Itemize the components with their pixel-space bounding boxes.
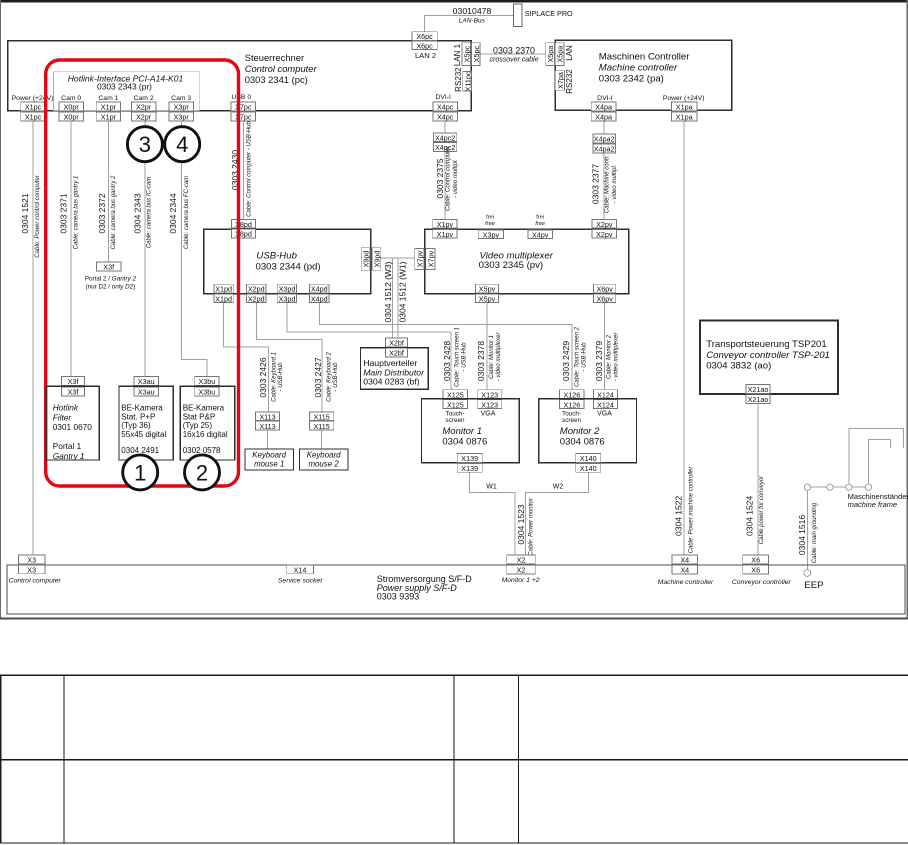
connector X6pc pair (412, 32, 437, 51)
svg-text:X5pv: X5pv (479, 285, 496, 294)
svg-text:Machine controller: Machine controller (599, 62, 678, 73)
svg-text:X6pv: X6pv (597, 295, 614, 304)
wire: cable 0304 2344 X3pr to X3bu (181, 121, 207, 377)
svg-text:X2: X2 (517, 566, 526, 575)
svg-text:X139: X139 (461, 464, 478, 473)
svg-text:X5pc: X5pc (462, 46, 471, 63)
svg-text:Keyboard: Keyboard (252, 451, 286, 460)
svg-text:55x45 digital: 55x45 digital (121, 430, 166, 439)
svg-text:Monitor 1 +2: Monitor 1 +2 (502, 577, 540, 584)
svg-text:X0pr: X0pr (64, 113, 80, 122)
svg-text:X115: X115 (313, 422, 329, 431)
cable label 0303 2427 (313, 351, 339, 401)
wire: crossover cable X5pc to X5pa (480, 53, 546, 55)
svg-text:X3f: X3f (68, 388, 79, 397)
cable label 0304 1516 (797, 502, 818, 563)
cable label 0304 1524 (744, 475, 765, 544)
connector X4pa pair (591, 102, 616, 122)
svg-text:frei: frei (536, 215, 544, 221)
svg-text:03010478: 03010478 (453, 6, 492, 16)
svg-text:W2: W2 (553, 483, 564, 490)
callout circle 2 (185, 455, 220, 490)
wire: cable 0303 2378 X5pv to X123 (486, 303, 488, 390)
svg-text:X3: X3 (27, 566, 36, 575)
svg-text:X126: X126 (564, 390, 581, 399)
connector X139 pair (457, 454, 482, 473)
svg-text:VGA: VGA (481, 411, 496, 418)
svg-text:frei: frei (486, 215, 494, 221)
callout circle 1 (123, 455, 158, 490)
svg-text:X11pc: X11pc (463, 71, 472, 91)
svg-text:mouse 2: mouse 2 (308, 460, 339, 469)
video multiplexer box 0303 2345 (pv) (425, 229, 629, 294)
power supply box S/F-D 0303 9393 (7, 565, 905, 614)
svg-text:Cam 2: Cam 2 (134, 95, 154, 102)
svg-text:X6: X6 (751, 566, 760, 575)
connector X115 pair (310, 412, 334, 431)
svg-text:Portal 2 / Gantry 2: Portal 2 / Gantry 2 (85, 275, 137, 282)
node: EEP grounding circle (804, 570, 811, 577)
svg-text:Cable: camera bus gantry 2: Cable: camera bus gantry 2 (111, 175, 117, 249)
svg-text:X3pd: X3pd (279, 285, 296, 294)
svg-text:Maschinen Controller: Maschinen Controller (599, 51, 690, 62)
svg-text:X1pr: X1pr (101, 113, 117, 122)
connector X140 pair (576, 454, 601, 473)
svg-text:X7pv: X7pv (416, 250, 425, 267)
hotlink filter box 0301 0670 (46, 386, 99, 460)
svg-text:X14: X14 (294, 566, 307, 575)
svg-text:X4pc: X4pc (437, 113, 454, 122)
svg-text:X3au: X3au (138, 388, 155, 397)
connector X5pv pair (475, 284, 498, 303)
svg-text:RS232: RS232 (454, 67, 463, 92)
cable label 0303 2430 (230, 120, 253, 216)
svg-text:Service socket: Service socket (278, 578, 323, 585)
svg-text:0304 1523: 0304 1523 (516, 504, 526, 544)
USB-Hub box 0303 2344 (pd) (204, 229, 371, 294)
svg-text:X1pd: X1pd (215, 295, 232, 304)
svg-text:X2pr: X2pr (136, 103, 152, 112)
svg-text:X21ao: X21ao (748, 395, 769, 404)
svg-text:0303 9393: 0303 9393 (377, 592, 420, 602)
connector X4pv (528, 230, 553, 239)
wire: cable 0303 2377 X4pa2 to X2pv (603, 153, 605, 219)
svg-text:2: 2 (196, 460, 208, 485)
keyboard mouse 2 box (299, 449, 348, 470)
connector X3f portal 2 (97, 262, 122, 272)
svg-text:Conveyor controller TSP-201: Conveyor controller TSP-201 (706, 350, 830, 361)
svg-text:Cable: Touch screen 2: Cable: Touch screen 2 (575, 326, 581, 386)
sheet frame right border (906, 0, 907, 619)
svg-text:- USB-Hub: - USB-Hub (333, 362, 339, 392)
svg-text:Portal 1: Portal 1 (53, 441, 82, 451)
svg-text:EEP: EEP (804, 580, 823, 591)
wire: cable 0303 2427 X2pd to X115 (256, 303, 322, 412)
svg-text:0303 2372: 0303 2372 (97, 193, 107, 233)
svg-text:0303 2344 (pd): 0303 2344 (pd) (256, 261, 321, 272)
svg-text:Cable: Monitor 2: Cable: Monitor 2 (607, 334, 613, 379)
svg-text:X4pv: X4pv (532, 230, 549, 239)
connector X113 pair (255, 412, 279, 431)
svg-text:X1pc: X1pc (25, 103, 42, 112)
svg-text:LAN 1: LAN 1 (453, 43, 462, 66)
svg-text:Control computer: Control computer (9, 578, 62, 585)
svg-text:X4pc2: X4pc2 (435, 133, 455, 142)
connector X6 pair (743, 555, 769, 575)
connector X3f pair (62, 377, 85, 397)
svg-text:0303 2345 (pv): 0303 2345 (pv) (479, 260, 544, 271)
wire: machine frame outer hook (849, 429, 904, 488)
svg-text:X1pd: X1pd (215, 285, 232, 294)
connector X21ao pair (746, 384, 770, 404)
svg-text:Transportsteuerung TSP201: Transportsteuerung TSP201 (706, 339, 827, 350)
svg-text:X113: X113 (259, 422, 275, 431)
connector X6pv pair (594, 284, 616, 303)
connector X9pd pair rotated (361, 248, 381, 271)
svg-text:Cable: Control computer: Cable: Control computer (446, 145, 452, 211)
svg-text:X140: X140 (580, 454, 597, 463)
svg-text:0304 1524: 0304 1524 (744, 496, 754, 536)
svg-text:0304 0876: 0304 0876 (442, 436, 487, 447)
svg-text:X5pa: X5pa (546, 46, 555, 63)
node: grounding circle 3 (846, 484, 852, 490)
wire: X115 to keyboard mouse 2 (321, 430, 323, 449)
svg-text:X3au: X3au (138, 377, 155, 386)
svg-text:X5pv: X5pv (479, 295, 496, 304)
wire: W2 monitor2 X140 to X2 (526, 472, 589, 555)
svg-text:Steuerrechner: Steuerrechner (245, 52, 304, 63)
svg-text:Cable: camera bus IC-cam: Cable: camera bus IC-cam (147, 177, 153, 248)
connector X1pa pair (672, 102, 698, 122)
svg-text:X113: X113 (259, 412, 275, 421)
svg-text:X9pd: X9pd (362, 251, 371, 268)
connector X123 pair (478, 390, 502, 410)
label frei free 2 (535, 215, 545, 228)
svg-text:X3pd: X3pd (279, 295, 296, 304)
wire: cable 0304 1516 main grounding to EEP (806, 491, 808, 570)
svg-text:3: 3 (139, 132, 151, 157)
cable label 0303 2426 (258, 352, 284, 402)
connector X124 pair (594, 390, 618, 410)
node: grounding circle 2 (827, 484, 833, 490)
svg-text:Cable: camera bus FC-cam: Cable: camera bus FC-cam (184, 176, 190, 249)
connector X1pr pair (96, 102, 121, 122)
svg-text:X3f: X3f (103, 263, 114, 272)
svg-text:X5pc: X5pc (472, 46, 481, 63)
connector X5pa pair rotated (546, 43, 565, 66)
svg-text:0303 2429: 0303 2429 (561, 341, 571, 381)
svg-text:X1pv: X1pv (437, 220, 454, 229)
BE-Kamera Typ 36 box 0304 2491 (119, 386, 173, 460)
conveyor controller TSP-201 box 0304 3832 (ao) (700, 320, 838, 394)
svg-text:0304 2344: 0304 2344 (168, 193, 178, 233)
svg-text:0303 2342 (pa): 0303 2342 (pa) (599, 73, 664, 84)
wire: cable 0304 1512 (W3) drop to X2bf (391, 258, 393, 338)
wire: X4pa to X4pa2 (603, 121, 605, 134)
cable label 0303 2372 (97, 175, 117, 249)
svg-text:X4pa: X4pa (595, 113, 612, 122)
connector X7pc pair (231, 102, 256, 122)
cable label 0303 2428 (442, 327, 468, 387)
cable label 0303 2429 (561, 326, 587, 386)
svg-text:0303 2378: 0303 2378 (476, 341, 486, 381)
connector X3pv (478, 230, 503, 239)
callout circle 4 (165, 127, 200, 162)
svg-text:X125: X125 (447, 400, 464, 409)
svg-text:X0pr: X0pr (64, 103, 80, 112)
hotlink interface PCI-A14-K01 inner box (53, 72, 199, 111)
svg-text:X3f: X3f (68, 377, 79, 386)
svg-text:X6: X6 (751, 556, 760, 565)
wire: cable 0303 2372 X1pr to X3f portal2 (107, 121, 109, 262)
connector X4pa2 pair (593, 134, 616, 153)
svg-text:- video multiplexer: - video multiplexer (496, 332, 502, 382)
svg-text:0304 1521: 0304 1521 (20, 193, 30, 233)
connector X4 pair (672, 555, 698, 575)
wire: cable 0303 2430 X7pc to X8pd (242, 121, 244, 219)
svg-text:VGA: VGA (597, 411, 612, 418)
svg-text:X4pa: X4pa (595, 103, 612, 112)
svg-text:SIPLACE PRO: SIPLACE PRO (525, 9, 573, 18)
svg-text:X123: X123 (481, 400, 498, 409)
svg-text:- video multiplexer: - video multiplexer (613, 332, 619, 382)
connector X1pc pair (21, 102, 46, 122)
label 03010478 LAN-Bus (453, 6, 492, 24)
connector X3 pair (19, 555, 45, 574)
svg-text:X125: X125 (447, 390, 464, 399)
svg-text:X3pv: X3pv (483, 230, 500, 239)
sheet frame top border (0, 0, 908, 2)
svg-text:0304 1516: 0304 1516 (797, 515, 807, 555)
svg-text:- video multipl.: - video multipl. (612, 165, 618, 204)
wire: X4pc to X4pc2 (444, 121, 446, 133)
svg-text:X2pv: X2pv (596, 220, 613, 229)
red highlight frame around camera interface (46, 60, 239, 486)
svg-text:Cable: Monitor 1: Cable: Monitor 1 (489, 335, 495, 379)
node: grounding circle EEP top (804, 484, 810, 490)
svg-text:0304 1522: 0304 1522 (673, 496, 683, 536)
svg-text:1: 1 (134, 460, 146, 485)
connector X4pc2 pair (434, 133, 457, 152)
cable label 0303 2379 (594, 332, 619, 382)
connector X7pv pair rotated (415, 248, 436, 269)
keyboard mouse 1 box (245, 449, 294, 470)
label Maschinenstaender machine frame (848, 492, 908, 509)
svg-text:0301 0670: 0301 0670 (53, 422, 93, 432)
svg-text:X7pa: X7pa (556, 72, 565, 89)
connector X2pv pair (592, 219, 616, 239)
wire: machine frame ground bus (811, 486, 869, 488)
connector X3bu pair (195, 377, 219, 397)
svg-text:Cable: Keyboard 2: Cable: Keyboard 2 (326, 351, 332, 401)
svg-text:0303 2370: 0303 2370 (493, 46, 535, 56)
svg-text:Cam 0: Cam 0 (61, 95, 81, 102)
svg-text:0303 2428: 0303 2428 (442, 341, 452, 381)
svg-text:X3pr: X3pr (174, 113, 190, 122)
monitor 2 box 0304 0876 (539, 399, 637, 463)
svg-text:X4pd: X4pd (311, 285, 328, 294)
connector X4pd pair (310, 284, 329, 303)
wire: cable 0303 2375 X4pc2 to X1pv (444, 151, 446, 219)
svg-text:0304 1512 (W3): 0304 1512 (W3) (383, 261, 393, 322)
svg-text:X6pc: X6pc (416, 41, 433, 50)
svg-text:X3: X3 (27, 556, 36, 565)
connector X8pd pair (232, 219, 256, 238)
svg-text:Cam 1: Cam 1 (98, 95, 118, 102)
svg-text:Cable: Control computer - USB-: Cable: Control computer - USB-Hub (246, 120, 252, 216)
connector X2 pair (507, 555, 536, 575)
svg-text:0303 2375: 0303 2375 (435, 158, 445, 198)
svg-text:X2: X2 (517, 556, 526, 565)
wire: cable 0304 1524 X21ao to X6 (757, 403, 759, 555)
svg-text:X21ao: X21ao (748, 385, 769, 394)
svg-text:4: 4 (176, 132, 188, 157)
svg-text:X2bf: X2bf (389, 339, 404, 348)
svg-text:- video multipl.: - video multipl. (453, 159, 459, 198)
connector X3pd pair (277, 284, 296, 303)
connector X11pc rotated (463, 72, 472, 92)
svg-text:screen: screen (562, 417, 581, 424)
svg-text:Cable: Machine contr.: Cable: Machine contr. (605, 155, 611, 213)
connector X3pr pair (169, 102, 194, 122)
svg-text:- USB-Hub: - USB-Hub (278, 362, 284, 392)
svg-text:X4pa2: X4pa2 (594, 135, 615, 144)
cable label 0304 1521 (20, 174, 41, 257)
svg-text:Cam 3: Cam 3 (171, 95, 191, 102)
label Portal 2 / Gantry 2 (nur D2 / only D2) (85, 275, 137, 290)
node: grounding circle 4 (865, 484, 871, 490)
svg-text:X1pc: X1pc (25, 113, 42, 122)
svg-text:(Typ 36): (Typ 36) (121, 421, 151, 430)
wire: cable 0304 1522 X1pa to X4 power supply (683, 121, 685, 555)
svg-text:X4pa2: X4pa2 (594, 145, 615, 154)
svg-text:X6pv: X6pv (597, 285, 614, 294)
svg-text:0303 2377: 0303 2377 (591, 164, 601, 204)
svg-text:W1: W1 (486, 483, 497, 490)
svg-text:X3bu: X3bu (199, 377, 216, 386)
svg-text:machine frame: machine frame (848, 500, 898, 509)
cable label 0303 2375 (435, 145, 459, 211)
wire: X113 to keyboard mouse 1 (267, 430, 269, 449)
svg-text:Cable: Keyboard 1: Cable: Keyboard 1 (271, 352, 277, 402)
cable label 0304 2344 (168, 176, 190, 249)
cable label 0304 1523 (516, 497, 535, 556)
svg-text:USB-Hub: USB-Hub (256, 251, 297, 262)
svg-text:free: free (535, 221, 545, 227)
svg-text:LAN-Bus: LAN-Bus (459, 17, 486, 24)
svg-text:Conveyor controller: Conveyor controller (732, 579, 792, 586)
svg-text:0303 2343 (pr): 0303 2343 (pr) (97, 82, 152, 92)
label touch-screen 1 (446, 411, 465, 424)
connector X7pa rotated (555, 71, 564, 91)
svg-text:Cable power for conveyor: Cable power for conveyor (759, 475, 765, 544)
connector X126 pair (560, 390, 585, 410)
sheet frame bottom border (0, 617, 908, 619)
label 0303 2370 crossover cable (489, 46, 538, 64)
svg-text:X123: X123 (481, 390, 498, 399)
svg-text:(Typ 25): (Typ 25) (183, 421, 213, 430)
connector X5pc pair rotated (462, 43, 481, 66)
svg-text:0303 2371: 0303 2371 (59, 193, 69, 233)
svg-text:Keyboard: Keyboard (307, 451, 341, 460)
svg-text:Control computer: Control computer (245, 63, 318, 74)
wire: cable 0304 1521 X1pc to X3 (32, 121, 34, 555)
svg-text:LAN: LAN (565, 45, 574, 61)
svg-text:Cable: camera bus gantry 1: Cable: camera bus gantry 1 (74, 176, 80, 250)
machine controller box 0303 2342 (pa) (555, 40, 732, 110)
SIPLACE PRO box (514, 4, 573, 27)
cable label 0303 2377 (591, 155, 618, 213)
svg-text:0303 2426: 0303 2426 (258, 357, 268, 397)
svg-text:0304 0876: 0304 0876 (560, 436, 605, 447)
connector X14 (287, 565, 314, 574)
svg-text:X139: X139 (461, 454, 478, 463)
svg-text:Cable: Power monitor: Cable: Power monitor (529, 497, 535, 556)
wire: X9pd to X7pv horizontal (381, 257, 415, 259)
svg-text:X115: X115 (313, 412, 329, 421)
wire: cable 0303 2379 X6pv to X124 (604, 303, 606, 390)
connector X4pc pair (433, 102, 458, 122)
svg-text:X9pd: X9pd (373, 251, 382, 268)
wire: cable 0304 1512 (W1) drop to X2bf (397, 258, 399, 338)
wire: LAN-Bus from X6pc up and right to SIPLACE PRO (424, 16, 513, 32)
svg-text:crossover cable: crossover cable (489, 57, 538, 64)
svg-text:Stat. P+P: Stat. P+P (121, 412, 155, 421)
svg-text:0303 2379: 0303 2379 (594, 341, 604, 381)
connector X2bf pair (385, 338, 407, 358)
svg-text:X4pc: X4pc (437, 103, 454, 112)
wire: cable 0303 2428 X3pd to X125 (287, 303, 451, 390)
svg-text:0304 3832 (ao): 0304 3832 (ao) (706, 361, 771, 372)
svg-text:Hotlink: Hotlink (53, 403, 79, 413)
label frei free 1 (485, 215, 495, 228)
svg-text:0303 2341 (pc): 0303 2341 (pc) (245, 74, 308, 85)
cable label 0304 2343 (133, 177, 153, 248)
svg-text:0304 1512 (W1): 0304 1512 (W1) (398, 261, 408, 322)
svg-text:BE-Kamera: BE-Kamera (121, 403, 163, 412)
svg-text:Stat P&P: Stat P&P (183, 412, 215, 421)
connector X1pv pair (433, 219, 457, 239)
svg-text:X1pa: X1pa (676, 103, 693, 112)
svg-text:USB 0: USB 0 (231, 94, 251, 101)
svg-text:X2bf: X2bf (389, 349, 404, 358)
svg-text:Cable: Power machine controlle: Cable: Power machine controller (688, 466, 694, 554)
sheet frame left border (0, 0, 1, 619)
svg-text:BE-Kamera: BE-Kamera (183, 403, 225, 412)
connector X2pr pair (131, 102, 156, 122)
svg-text:X2pv: X2pv (596, 230, 613, 239)
connector X2pd pair (247, 284, 266, 303)
svg-text:Gantry 1: Gantry 1 (53, 451, 85, 461)
svg-text:Filter: Filter (53, 412, 73, 422)
wire: cable 0303 2371 X0pr to X3f (70, 121, 72, 377)
svg-text:Cable: Power control computer: Cable: Power control computer (35, 174, 41, 257)
svg-text:X124: X124 (597, 390, 614, 399)
svg-text:- USB-Hub: - USB-Hub (462, 342, 468, 372)
svg-text:X5pa: X5pa (556, 46, 565, 63)
svg-text:X4: X4 (680, 566, 689, 575)
svg-text:screen: screen (446, 417, 465, 424)
svg-text:X6pc: X6pc (416, 32, 433, 41)
svg-text:X4pd: X4pd (311, 295, 328, 304)
svg-text:X2pr: X2pr (136, 113, 152, 122)
wire: machine frame inner hook (868, 439, 890, 487)
wire: cable 0303 2429 X4pd to X126 (319, 303, 572, 390)
svg-text:X140: X140 (580, 464, 597, 473)
svg-text:mouse 1: mouse 1 (254, 460, 284, 469)
svg-text:0304 0283 (bf): 0304 0283 (bf) (363, 376, 420, 386)
monitor 1 box 0304 0876 (422, 399, 520, 463)
